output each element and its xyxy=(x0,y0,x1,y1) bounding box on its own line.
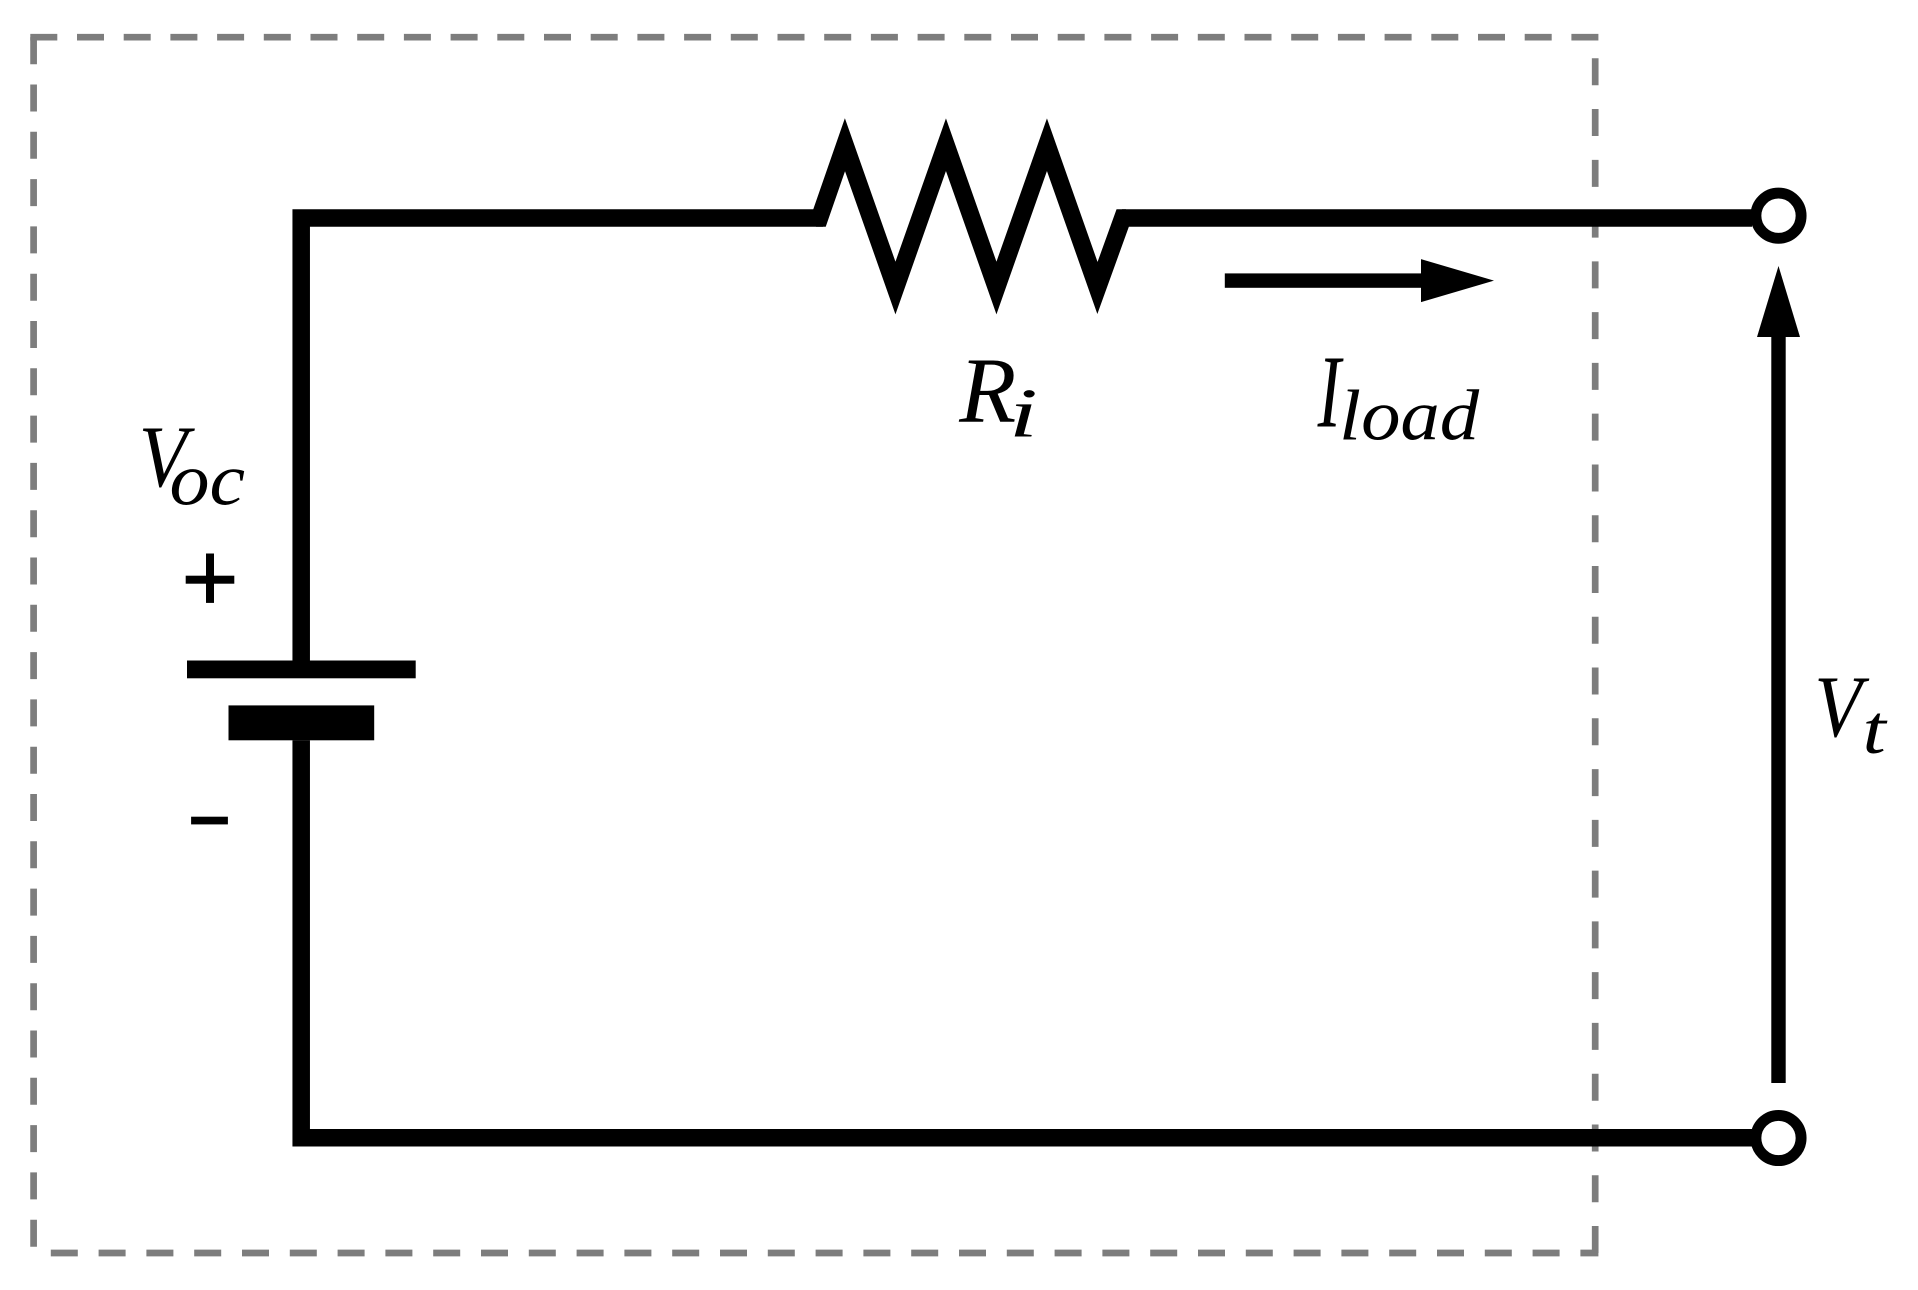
svg-text:load: load xyxy=(1339,376,1480,456)
wire: battery negative lead and bottom wire to bottom terminal xyxy=(301,740,1752,1137)
resistor Ri xyxy=(816,145,1126,288)
battery minus sign xyxy=(191,817,228,825)
wire: resistor to top terminal xyxy=(1122,209,1752,227)
label R_i xyxy=(958,340,1038,452)
battery enclosure: top dashed edge xyxy=(30,34,1598,41)
label I_load xyxy=(1317,335,1480,456)
current arrow I_load xyxy=(1225,259,1494,302)
battery enclosure: bottom dashed edge xyxy=(30,1250,1598,1257)
battery positive plate (long) xyxy=(187,661,416,679)
svg-text:t: t xyxy=(1863,692,1888,769)
battery negative plate (short thick) xyxy=(229,705,375,740)
battery plus sign xyxy=(186,554,235,603)
label V_oc xyxy=(139,409,245,522)
voltage arrow V_t xyxy=(1757,266,1800,1083)
bottom terminal node (open circle) xyxy=(1756,1115,1801,1160)
svg-text:oc: oc xyxy=(170,440,246,522)
wire: battery positive lead and top wire to resistor xyxy=(301,218,823,661)
battery enclosure: right dashed edge xyxy=(1592,37,1599,1253)
battery enclosure: left dashed edge xyxy=(30,37,37,1253)
top terminal node (open circle) xyxy=(1756,193,1801,238)
label V_t xyxy=(1814,659,1887,769)
svg-text:i: i xyxy=(1009,375,1038,452)
svg-text:R: R xyxy=(958,340,1016,443)
